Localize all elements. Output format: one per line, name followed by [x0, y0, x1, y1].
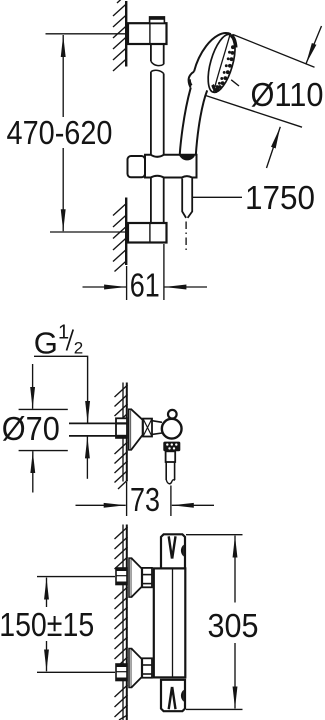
- bottom wall bracket: [128, 223, 167, 243]
- dimension 73 extension line (right): [170, 486, 172, 517]
- nozzle dots: [215, 45, 235, 91]
- spray lever on handle: [189, 72, 194, 88]
- valve body circle: [162, 419, 182, 439]
- top union: wall nut: [116, 568, 127, 585]
- svg-text:G: G: [34, 325, 58, 360]
- bottom knob shadow: [181, 690, 184, 702]
- hatching (middle wall): [115, 385, 128, 489]
- shower hose: [182, 179, 186, 218]
- hose nut (dark knurled): [163, 442, 180, 452]
- wall surface extension below (73 left ext): [126, 482, 128, 516]
- top knob grip slot: [169, 536, 176, 558]
- outlet collar: [166, 451, 176, 462]
- dark wedge where handle meets slider: [179, 156, 194, 161]
- hose cut end: [166, 480, 174, 484]
- wall (top drawing, lower segment): [125, 198, 127, 266]
- svg-text:470-620: 470-620: [7, 114, 113, 151]
- rail top cap: [150, 17, 165, 23]
- svg-text:1750: 1750: [245, 179, 315, 216]
- bottom knob grip slot: [169, 687, 176, 709]
- leader line 1750: [193, 196, 243, 198]
- hose centerline (dash-dot): [185, 222, 187, 252]
- svg-text:150±15: 150±15: [0, 606, 94, 643]
- outlet hose: [165, 462, 167, 480]
- wall (bottom drawing): [122, 525, 124, 720]
- svg-text:73: 73: [130, 481, 160, 518]
- slider left knob: [128, 156, 146, 177]
- dimension 73 line with arrows: [76, 504, 126, 506]
- top union: flange cone: [131, 558, 141, 597]
- dimension 470-620 line with arrows: [62, 35, 64, 117]
- dimension 305 line with arrows: [234, 536, 236, 603]
- body highlight line: [172, 568, 174, 677]
- cap screw circle: [168, 410, 177, 419]
- bottom knob: [161, 680, 185, 711]
- dark tip at bottom of face: [211, 84, 217, 93]
- dimension 150±15 arrows: [46, 578, 48, 607]
- dimension 150±15 extension lines: [37, 576, 115, 578]
- valve neck: [152, 421, 162, 423]
- rail edge through bottom bracket: [149, 223, 151, 243]
- top knob: [161, 534, 185, 568]
- shower rail (upper section with break): [150, 44, 152, 61]
- hatching (bottom wall): [115, 527, 128, 720]
- dimension 61 extension lines: [126, 266, 128, 300]
- shower rail (lower section): [150, 72, 152, 155]
- top union: flange plate: [129, 558, 131, 597]
- dimension 305 extension lines: [186, 534, 243, 536]
- svg-text:1: 1: [58, 322, 69, 344]
- bottom union: knurled nut: [142, 658, 152, 677]
- dark rim at top of face: [231, 35, 236, 47]
- dimension Ø70 arrows: [32, 364, 34, 409]
- hatching (upper wall segment): [113, 0, 127, 71]
- bottom union: flange plate: [129, 649, 131, 688]
- svg-text:2: 2: [74, 338, 83, 357]
- knurled nut (middle union): [143, 419, 152, 437]
- svg-text:Ø110: Ø110: [251, 76, 324, 113]
- hatching (lower wall segment): [113, 203, 127, 272]
- supply pipe behind wall: [69, 422, 116, 424]
- bottom union: flange cone: [131, 649, 141, 688]
- top knob shadow: [181, 545, 184, 557]
- hand shower handle: [180, 88, 191, 156]
- hand shower body silhouette: [194, 33, 231, 72]
- svg-text:Ø70: Ø70: [2, 410, 60, 447]
- bottom union: wall nut: [116, 664, 127, 681]
- flange cone (middle union): [131, 409, 143, 450]
- thermostat body: [154, 568, 186, 677]
- wall (middle drawing): [122, 383, 124, 482]
- shower head face (ellipse): [203, 32, 241, 96]
- dimension 470-620 extension line (bottom): [50, 231, 125, 233]
- top wall bracket: [128, 23, 167, 44]
- dimension Ø110 extension lines: [233, 35, 315, 68]
- wall nut (middle drawing): [116, 418, 127, 438]
- svg-text:61: 61: [130, 267, 160, 304]
- flange plate (middle union): [129, 409, 131, 450]
- pipe thread arrow (lower): [86, 436, 88, 478]
- face plate inner edge line: [214, 35, 230, 92]
- rail edge through top bracket: [149, 23, 151, 44]
- slider body: [145, 155, 197, 178]
- rail below slider: [150, 178, 152, 224]
- rail break symbol: [151, 61, 164, 65]
- dimension 470-620 extension line (top): [46, 33, 127, 35]
- svg-text:305: 305: [208, 607, 259, 644]
- top union: knurled nut: [142, 568, 152, 587]
- dimension Ø110 arrows: [306, 26, 322, 64]
- dimension 61 line with arrows: [83, 286, 127, 288]
- label G 1/2 underline and leader: [34, 356, 88, 423]
- head lower rim stub: [231, 80, 239, 86]
- wall (top drawing, upper segment): [125, 1, 127, 67]
- dimension Ø70 extension lines: [19, 408, 68, 410]
